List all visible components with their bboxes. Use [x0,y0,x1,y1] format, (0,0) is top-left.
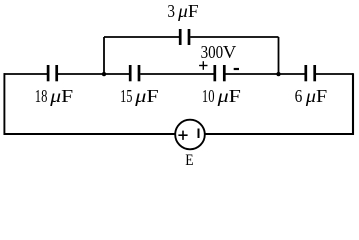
node junction left [102,72,106,76]
battery plus sign [178,134,187,136]
wire: top line right of C5 [190,36,278,38]
wire: left edge [3,73,5,135]
svg-text:μF: μF [216,86,241,106]
polarity minus near C3 [234,68,239,70]
svg-text:V: V [223,42,236,62]
wire: top line left of C5 [104,36,179,38]
svg-text:μF: μF [134,86,159,106]
svg-text:3: 3 [167,1,175,21]
capacitor C4 6uF plates [304,65,307,81]
svg-text:6: 6 [295,86,303,106]
capacitor C3 10uF plates [213,65,216,81]
capacitor C2 15uF plates [129,65,132,81]
wire: between C1 and C2 [58,73,129,75]
svg-text:μF: μF [305,86,327,106]
battery E circle [175,120,205,150]
svg-text:15: 15 [120,86,132,106]
svg-text:μF: μF [177,1,198,21]
wire: top branch left vertical [103,37,105,74]
wire: bottom line [4,133,354,135]
svg-text:E: E [185,152,193,169]
svg-text:10: 10 [202,86,215,106]
svg-text:μF: μF [49,86,73,106]
wire: top branch right vertical [278,37,280,74]
wire: right edge [352,73,354,135]
battery bar [198,129,200,139]
node junction right [276,72,280,76]
wire: main line right segment [316,73,353,75]
wire: between C3 and C4 [226,73,305,75]
capacitor C1 18uF plates [47,65,50,81]
polarity plus near C3 [199,65,207,67]
svg-text:300: 300 [201,42,224,62]
svg-text:18: 18 [35,86,48,106]
wire: main line left segment [4,73,48,75]
capacitor C5 3uF plates [179,29,182,45]
wire: between C2 and C3 [140,73,213,75]
